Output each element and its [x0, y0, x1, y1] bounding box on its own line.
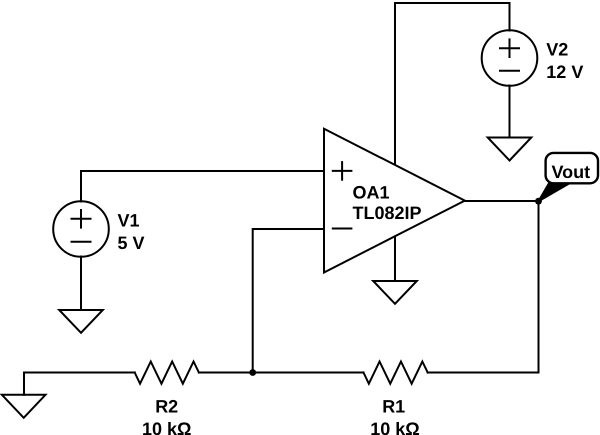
resistor R1 [364, 362, 428, 384]
wire V1 to ground [80, 257, 82, 311]
svg-text:OA1: OA1 [353, 183, 390, 203]
svg-text:R1: R1 [382, 397, 405, 417]
net flag Vout pointer tail [539, 183, 570, 201]
ground below V2 [488, 138, 532, 161]
wire op-amp output to node [465, 200, 539, 202]
resistor R2 [135, 362, 199, 384]
svg-text:10 kΩ: 10 kΩ [142, 419, 191, 435]
wire feedback from node to inverting input [253, 229, 324, 373]
svg-text:12 V: 12 V [546, 62, 583, 82]
label R1 10 kOhm [370, 397, 419, 435]
label V1 5 V [118, 210, 145, 253]
wire R1 right up to output node [428, 201, 539, 373]
svg-text:TL082IP: TL082IP [353, 203, 422, 223]
node junction dot at R2/R1/feedback [249, 369, 256, 376]
svg-text:R2: R2 [155, 397, 178, 417]
wire V1 to op-amp non-inverting input [81, 171, 324, 202]
net flag Vout box [546, 153, 598, 183]
voltage source V1 [53, 201, 109, 257]
wire op-amp V- pin to ground [394, 236, 396, 281]
op-amp OA1 TL082IP [324, 129, 465, 273]
svg-text:10 kΩ: 10 kΩ [370, 419, 419, 435]
voltage source V2 [482, 30, 538, 86]
label OA1 TL082IP [353, 183, 422, 224]
node junction dot at output Vout [535, 198, 542, 205]
wire V+ rail from op-amp top to V2 [395, 3, 510, 165]
ground bottom-left [2, 395, 46, 418]
svg-text:V2: V2 [546, 40, 568, 60]
ground below op-amp [373, 281, 417, 304]
svg-text:Vout: Vout [552, 162, 591, 182]
ground below V1 [59, 310, 103, 333]
svg-text:V1: V1 [118, 210, 140, 230]
label R2 10 kOhm [142, 397, 191, 435]
label Vout [552, 162, 591, 182]
wire V2 to ground [509, 86, 511, 138]
wire left ground to R2 [24, 373, 135, 395]
svg-text:5 V: 5 V [118, 233, 145, 253]
label V2 12 V [546, 40, 583, 83]
wire R2 to R1 through node [199, 372, 364, 374]
